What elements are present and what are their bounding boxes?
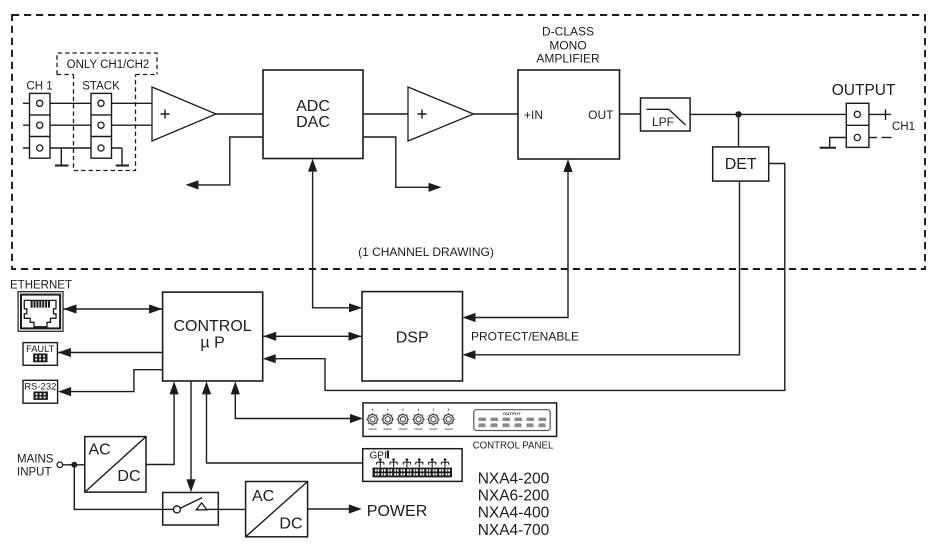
label plus terminal [869, 109, 891, 120]
label NXA model list [478, 471, 550, 539]
terminal mains input [57, 462, 63, 468]
arrow into CONTROL bottom (panel) [231, 381, 240, 394]
converter AC/DC PS2 [246, 482, 308, 537]
connector RJ45 ethernet jack [18, 292, 63, 332]
block ADC/DAC [263, 70, 363, 159]
svg-text:STACK: STACK [82, 81, 120, 93]
wire ADC to DSP [313, 162, 352, 308]
knobs potentiometers [366, 409, 455, 430]
arrow into CONTROL left (ethernet) [149, 304, 162, 313]
svg-text:DET: DET [725, 156, 757, 173]
svg-text:MAINS: MAINS [17, 453, 54, 465]
svg-text:POWER: POWER [367, 503, 427, 520]
svg-text:CONTROL PANEL: CONTROL PANEL [473, 441, 554, 452]
arrow into DSP right (upper) [463, 313, 476, 322]
svg-text:AC: AC [89, 441, 111, 458]
svg-text:FAULT: FAULT [26, 344, 55, 354]
wire DAC monitor out right [363, 137, 431, 187]
svg-text:PROTECT/ENABLE: PROTECT/ENABLE [471, 330, 579, 344]
arrow into control panel left [350, 414, 363, 423]
arrow right monitor [429, 183, 442, 192]
connector STACK terminal block [91, 93, 112, 158]
svg-text:CH1: CH1 [892, 121, 915, 133]
svg-text:GPI: GPI [370, 450, 387, 461]
svg-text:NXA6-200: NXA6-200 [478, 488, 550, 505]
ground CH1 [55, 148, 69, 166]
svg-text:DC: DC [279, 515, 302, 532]
wire GPI to CONTROL [207, 391, 363, 463]
wire switch to AC/DC 2 [218, 508, 245, 510]
block CONTROL uP [163, 292, 263, 381]
svg-text:ETHERNET: ETHERNET [10, 279, 72, 291]
svg-text:LPF: LPF [652, 115, 674, 129]
wire AC/DC 1 to CONTROL [146, 391, 174, 465]
wire CONTROL to FAULT [57, 352, 162, 354]
filter LPF [641, 98, 691, 131]
svg-text:(1 CHANNEL DRAWING): (1 CHANNEL DRAWING) [358, 245, 494, 259]
display control panel lcd [474, 410, 550, 431]
svg-text:OUT: OUT [588, 108, 614, 122]
ground output [820, 138, 847, 148]
svg-text:OUTPUT: OUTPUT [832, 82, 896, 99]
label D-CLASS MONO AMPLIFIER [536, 25, 600, 66]
arrow into FAULT [58, 348, 71, 357]
svg-text:DAC: DAC [296, 114, 330, 131]
wire junction to DET [738, 114, 740, 146]
svg-text:ADC: ADC [296, 98, 330, 115]
panel control panel box [363, 403, 557, 437]
svg-text:CONTROL: CONTROL [173, 318, 251, 335]
arrow into DSP left [349, 303, 362, 312]
arrow into RS-232 [58, 387, 71, 396]
block DET detector [713, 147, 769, 181]
switch relay box [163, 493, 219, 526]
wire amplifier to DSP (protect/enable) [472, 162, 568, 318]
wire CONTROL to control panel (bidirectional) [235, 391, 353, 419]
block mono amplifier U1 [518, 70, 620, 159]
wire amplifier OUT to LPF [620, 113, 641, 115]
arrow into CONTROL right (from DET) [263, 354, 276, 363]
svg-text:RS-232: RS-232 [24, 382, 56, 393]
wire CONTROL to RS-232 [68, 370, 163, 392]
wire ethernet to CONTROL (bidirectional) [63, 308, 163, 310]
indicator FAULT [23, 343, 57, 366]
wire DET right to CONTROL [273, 164, 785, 391]
wire CONTROL to switch [190, 381, 192, 482]
node junction on output line [735, 111, 741, 117]
arrow into amplifier bottom [563, 159, 572, 172]
arrow into ADC bottom [308, 159, 317, 172]
wire ADC to A2 [363, 113, 408, 115]
connector output terminal block [846, 103, 869, 147]
svg-text:+IN: +IN [524, 108, 543, 122]
svg-text:INPUT: INPUT [17, 467, 52, 479]
svg-text:CH 1: CH 1 [26, 81, 52, 93]
svg-text:NXA4-700: NXA4-700 [478, 522, 550, 539]
svg-text:ONLY CH1/CH2: ONLY CH1/CH2 [67, 59, 150, 71]
svg-text:DC: DC [117, 468, 140, 485]
arrow into CONTROL bottom (psu) [170, 381, 179, 394]
svg-text:OUTPUT: OUTPUT [503, 411, 521, 416]
arrow into DSP right (lower) [463, 350, 476, 359]
arrow into switch top [186, 479, 195, 492]
svg-text:NXA4-400: NXA4-400 [478, 505, 550, 522]
label MAINS INPUT [17, 453, 54, 478]
arrow into CONTROL bottom (gpi) [202, 381, 211, 394]
label minus terminal [869, 137, 892, 139]
channel drawing dashed enclosure [12, 15, 925, 269]
ground STACK [116, 148, 129, 166]
svg-text:µ P: µ P [200, 335, 224, 352]
wire input row 2 [23, 124, 152, 126]
wire input row 1 [23, 102, 152, 104]
wire CONTROL to DSP (bidirectional) [263, 335, 362, 337]
op-amp A1 input amplifier [152, 87, 216, 141]
node mains junction [71, 462, 77, 468]
svg-text:NXA4-200: NXA4-200 [478, 471, 550, 488]
svg-text:D-CLASS: D-CLASS [542, 25, 594, 39]
arrow left monitor [186, 180, 199, 189]
arrow into RJ45 [64, 304, 77, 313]
svg-text:DSP: DSP [396, 330, 429, 347]
wire LPF to output terminal [690, 113, 846, 115]
GPI box [363, 449, 462, 482]
svg-text:AMPLIFIER: AMPLIFIER [536, 52, 600, 66]
op-amp A2 post amplifier [408, 87, 474, 141]
wire DET bottom to DSP (protect/enable lower) [472, 181, 740, 355]
block DSP [362, 292, 463, 381]
arrow into CONTROL right [263, 332, 276, 341]
wire A2 to amplifier [474, 113, 519, 115]
only-ch1/ch2 dashed label box [57, 53, 157, 171]
wire DAC monitor out left [196, 137, 263, 185]
wire input row 3 [23, 147, 122, 149]
connector RS-232 [23, 380, 58, 403]
wire mains to AC/DC 1 [63, 464, 85, 466]
arrow POWER [349, 504, 362, 513]
wire A1 to ADC [216, 113, 263, 115]
wire AC/DC 2 to POWER [308, 508, 352, 510]
connector CH1 terminal block [30, 93, 51, 158]
GPI switch symbols [377, 458, 449, 467]
converter AC/DC PS1 [85, 437, 146, 493]
svg-text:AC: AC [252, 488, 274, 505]
wire mains junction to switch [74, 465, 162, 510]
GPI terminal strip [373, 468, 453, 478]
arrow into DSP left (from CONTROL) [349, 332, 362, 341]
svg-text:MONO: MONO [549, 38, 586, 52]
